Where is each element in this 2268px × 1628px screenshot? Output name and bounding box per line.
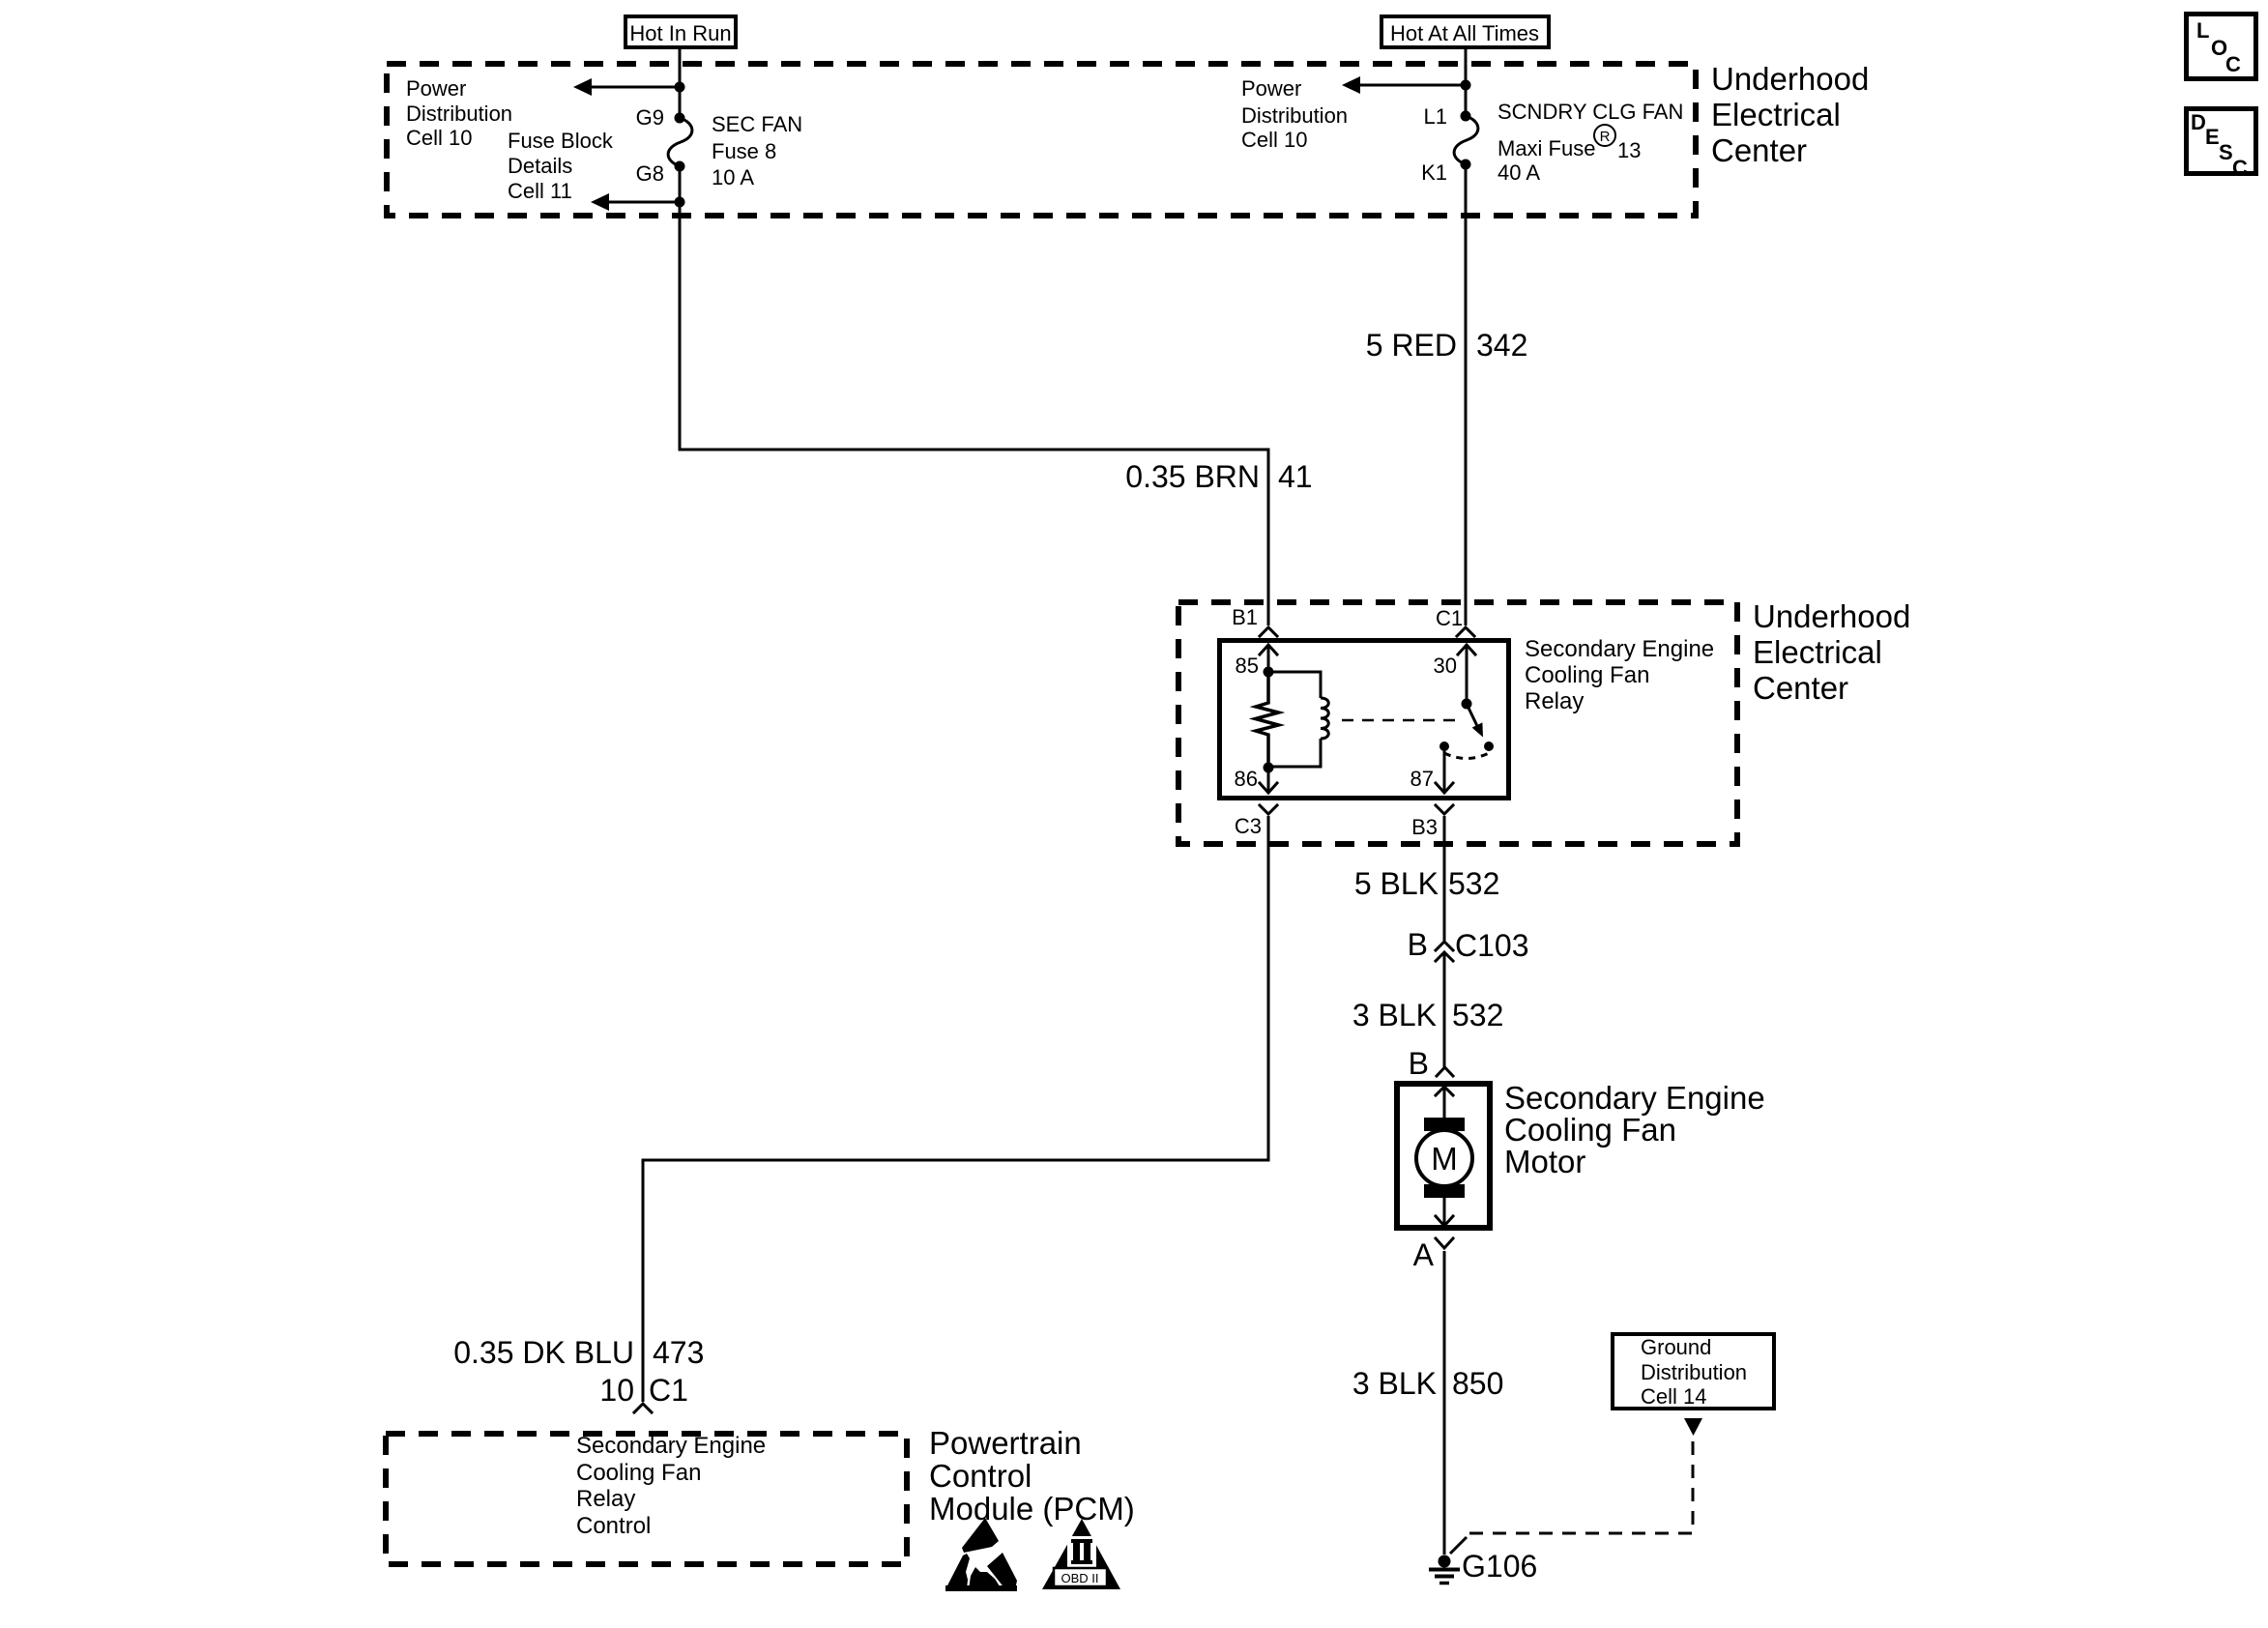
svg-text:B: B: [1408, 927, 1428, 962]
svg-text:5 RED: 5 RED: [1366, 328, 1457, 363]
svg-text:Hot At All Times: Hot At All Times: [1390, 21, 1539, 45]
svg-text:G106: G106: [1462, 1549, 1537, 1584]
svg-text:10 A: 10 A: [712, 165, 754, 189]
svg-text:Powertrain: Powertrain: [929, 1425, 1082, 1461]
svg-text:C3: C3: [1235, 814, 1262, 838]
svg-text:40 A: 40 A: [1497, 160, 1540, 185]
svg-text:L1: L1: [1424, 104, 1447, 129]
svg-text:C103: C103: [1455, 928, 1529, 963]
svg-text:Electrical: Electrical: [1711, 97, 1841, 132]
svg-text:Details: Details: [508, 154, 572, 178]
svg-text:C: C: [2225, 52, 2241, 76]
svg-text:K1: K1: [1421, 160, 1447, 185]
svg-text:Control: Control: [929, 1458, 1032, 1494]
svg-text:Cell 11: Cell 11: [508, 179, 572, 203]
svg-text:Electrical: Electrical: [1753, 634, 1882, 670]
svg-text:Power: Power: [1241, 76, 1301, 101]
svg-text:G8: G8: [636, 161, 664, 186]
svg-text:Relay: Relay: [576, 1486, 635, 1512]
svg-text:30: 30: [1434, 654, 1457, 678]
svg-text:10: 10: [599, 1373, 634, 1408]
svg-text:Control: Control: [576, 1513, 651, 1539]
svg-text:532: 532: [1452, 998, 1503, 1032]
svg-text:Center: Center: [1711, 132, 1807, 168]
svg-text:0.35 DK BLU: 0.35 DK BLU: [453, 1335, 634, 1370]
svg-text:3 BLK: 3 BLK: [1352, 1366, 1437, 1401]
svg-text:Cell 14: Cell 14: [1641, 1384, 1706, 1409]
svg-text:R: R: [1600, 129, 1611, 145]
svg-text:86: 86: [1235, 767, 1258, 791]
svg-text:41: 41: [1278, 459, 1313, 494]
svg-text:Cooling Fan: Cooling Fan: [1504, 1112, 1676, 1148]
svg-text:C1: C1: [1436, 606, 1463, 630]
svg-text:Fuse 8: Fuse 8: [712, 139, 776, 163]
svg-text:0.35 BRN: 0.35 BRN: [1125, 459, 1260, 494]
svg-text:S: S: [2219, 140, 2233, 164]
svg-text:Cooling Fan: Cooling Fan: [576, 1460, 701, 1486]
svg-text:D: D: [2191, 110, 2206, 134]
svg-text:342: 342: [1476, 328, 1527, 363]
svg-text:5 BLK: 5 BLK: [1354, 866, 1439, 901]
svg-text:Distribution: Distribution: [406, 102, 512, 126]
svg-text:B: B: [1409, 1046, 1429, 1081]
svg-text:Distribution: Distribution: [1241, 103, 1348, 128]
svg-text:Center: Center: [1753, 670, 1848, 706]
svg-text:Distribution: Distribution: [1641, 1360, 1747, 1384]
svg-text:Underhood: Underhood: [1711, 61, 1869, 97]
svg-text:87: 87: [1410, 767, 1434, 791]
svg-text:B3: B3: [1411, 815, 1438, 839]
svg-text:Relay: Relay: [1525, 688, 1584, 714]
svg-text:Cooling Fan: Cooling Fan: [1525, 662, 1649, 688]
svg-text:Cell 10: Cell 10: [406, 126, 472, 150]
svg-text:Fuse Block: Fuse Block: [508, 129, 614, 153]
svg-text:Module (PCM): Module (PCM): [929, 1491, 1135, 1526]
svg-text:3 BLK: 3 BLK: [1352, 998, 1437, 1032]
svg-text:B1: B1: [1232, 605, 1258, 629]
svg-text:Secondary Engine: Secondary Engine: [1504, 1080, 1765, 1116]
svg-text:532: 532: [1448, 866, 1499, 901]
svg-text:473: 473: [653, 1335, 704, 1370]
svg-text:850: 850: [1452, 1366, 1503, 1401]
svg-text:OBD II: OBD II: [1061, 1571, 1098, 1585]
svg-text:A: A: [1413, 1237, 1435, 1272]
svg-text:Underhood: Underhood: [1753, 598, 1910, 634]
svg-text:Cell 10: Cell 10: [1241, 128, 1307, 152]
svg-text:L: L: [2196, 18, 2209, 43]
svg-text:Secondary Engine: Secondary Engine: [1525, 636, 1714, 662]
svg-text:C: C: [2232, 156, 2248, 180]
svg-text:Secondary Engine: Secondary Engine: [576, 1433, 766, 1459]
svg-text:SCNDRY CLG FAN: SCNDRY CLG FAN: [1497, 100, 1683, 124]
svg-text:Maxi Fuse: Maxi Fuse: [1497, 136, 1595, 160]
svg-text:E: E: [2205, 125, 2220, 149]
svg-text:Power: Power: [406, 76, 466, 101]
svg-text:G9: G9: [636, 105, 664, 130]
svg-text:Hot In Run: Hot In Run: [629, 21, 731, 45]
svg-text:85: 85: [1236, 654, 1259, 678]
svg-text:M: M: [1431, 1141, 1458, 1177]
svg-text:Ground: Ground: [1641, 1335, 1711, 1359]
svg-text:Motor: Motor: [1504, 1144, 1585, 1179]
svg-text:C1: C1: [649, 1373, 688, 1408]
svg-text:SEC FAN: SEC FAN: [712, 112, 802, 136]
svg-text:13: 13: [1617, 138, 1641, 162]
